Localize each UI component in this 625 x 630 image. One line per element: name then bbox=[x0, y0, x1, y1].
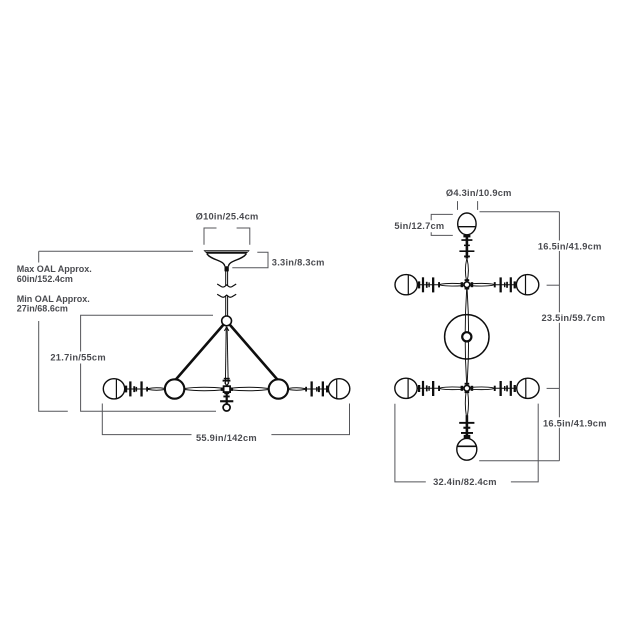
svg-text:23.5in/59.7cm: 23.5in/59.7cm bbox=[542, 313, 606, 323]
plan node 1 nubs bbox=[465, 279, 470, 281]
dim bracket 21.7in bbox=[81, 315, 213, 351]
dim bracket 32.4 bbox=[395, 404, 426, 482]
stem break mark lower bbox=[217, 294, 236, 297]
globe right bbox=[328, 379, 349, 399]
plan arm tube left bbox=[441, 387, 464, 390]
diagonal rod right bbox=[230, 324, 283, 385]
plan top finial bbox=[466, 235, 469, 259]
svg-text:16.5in/41.9cm: 16.5in/41.9cm bbox=[538, 241, 602, 251]
svg-text:Max OAL Approx.: Max OAL Approx. bbox=[17, 264, 92, 274]
plan top globe bbox=[458, 213, 476, 235]
diagonal rod left bbox=[171, 324, 224, 385]
plan arm tube left bbox=[441, 283, 464, 286]
hanger ball joint bbox=[222, 316, 232, 326]
arm tube hub-to-right-ball bbox=[230, 387, 269, 388]
canopy stem knob bbox=[225, 266, 229, 271]
stem lower segment bbox=[225, 295, 227, 316]
arm tube left-ball-to-finial bbox=[148, 388, 165, 390]
hub bottom ball bbox=[223, 404, 230, 411]
finial discs left bbox=[125, 386, 128, 393]
finial discs right bbox=[326, 386, 329, 393]
plan spindle 2 (node1 to node2, passing canopy) bbox=[465, 288, 467, 385]
plan node 2 nubs bbox=[465, 383, 470, 385]
stem break mark upper bbox=[217, 284, 236, 287]
dim dash arm2 bbox=[547, 387, 560, 389]
arm ball joint left bbox=[165, 379, 184, 398]
dim bracket 55.9in bbox=[102, 404, 191, 435]
plan arm tube right bbox=[470, 283, 493, 286]
plan globe left bbox=[395, 378, 417, 398]
centre drop rod bbox=[224, 327, 227, 384]
svg-text:21.7in/55cm: 21.7in/55cm bbox=[50, 353, 105, 363]
plan spindle 1 bbox=[465, 259, 466, 282]
plan canopy hub ring bbox=[462, 332, 471, 341]
svg-text:Min OAL Approx.: Min OAL Approx. bbox=[17, 294, 90, 304]
arm tube hub-to-left-ball bbox=[185, 387, 224, 388]
plan finial discs right bbox=[514, 385, 516, 392]
plan bottom globe bbox=[457, 438, 477, 460]
finial axis line left bbox=[125, 388, 149, 390]
plan finial discs left bbox=[418, 385, 420, 392]
plan globe right bbox=[516, 275, 538, 295]
svg-text:Ø10in/25.4cm: Ø10in/25.4cm bbox=[196, 212, 259, 222]
svg-text:55.9in/142cm: 55.9in/142cm bbox=[196, 433, 257, 443]
plan node 2 bbox=[464, 385, 470, 391]
arm tube right-ball-to-finial bbox=[288, 388, 305, 390]
plan finial axis right bbox=[493, 387, 516, 389]
svg-text:16.5in/41.9cm: 16.5in/41.9cm bbox=[543, 418, 607, 428]
dim ticks D4.3 bbox=[457, 201, 459, 210]
hub lower finial bbox=[226, 392, 228, 404]
plan finial axis right bbox=[493, 284, 516, 286]
plan finial axis left bbox=[417, 284, 440, 286]
plan globe right bbox=[517, 378, 539, 398]
dim bracket 3.3in bbox=[232, 252, 268, 268]
dim dash arm1 bbox=[547, 284, 560, 286]
plan globe left bbox=[395, 275, 417, 295]
hub block bbox=[224, 386, 231, 392]
svg-text:60in/152.4cm: 60in/152.4cm bbox=[17, 274, 73, 284]
svg-text:Ø4.3in/10.9cm: Ø4.3in/10.9cm bbox=[446, 188, 512, 198]
plan bottom finial bbox=[466, 415, 469, 438]
dim line top 16.5 extension bbox=[480, 211, 560, 213]
plan finial discs right bbox=[514, 281, 516, 288]
arm ball joint right bbox=[269, 379, 288, 398]
svg-text:5in/12.7cm: 5in/12.7cm bbox=[394, 221, 444, 231]
svg-text:3.3in/8.3cm: 3.3in/8.3cm bbox=[272, 257, 325, 267]
dim bracket 5in bbox=[431, 214, 453, 220]
plan canopy circle bbox=[445, 315, 489, 359]
plan arm tube right bbox=[470, 387, 493, 390]
plan node 1 bbox=[464, 282, 470, 288]
globe left bbox=[103, 379, 124, 399]
svg-text:27in/68.6cm: 27in/68.6cm bbox=[17, 304, 68, 314]
dim bracket max OAL vertical bbox=[38, 251, 40, 262]
dim line bottom extension bbox=[479, 460, 559, 462]
dim bracket D10 bbox=[204, 228, 217, 245]
dim vertical right (segmented) bbox=[558, 212, 560, 241]
canopy ceiling plate bbox=[203, 250, 249, 254]
finial axis line right bbox=[305, 388, 329, 390]
svg-text:32.4in/82.4cm: 32.4in/82.4cm bbox=[433, 477, 497, 487]
plan bottom spindle bbox=[465, 392, 466, 416]
hub spindle collars above bbox=[224, 378, 230, 380]
canopy funnel bbox=[207, 254, 225, 267]
dim extension line max OAL (canopy top) bbox=[39, 250, 193, 252]
plan finial discs left bbox=[418, 281, 420, 288]
stem upper segment bbox=[225, 271, 227, 285]
plan finial axis left bbox=[417, 387, 440, 389]
